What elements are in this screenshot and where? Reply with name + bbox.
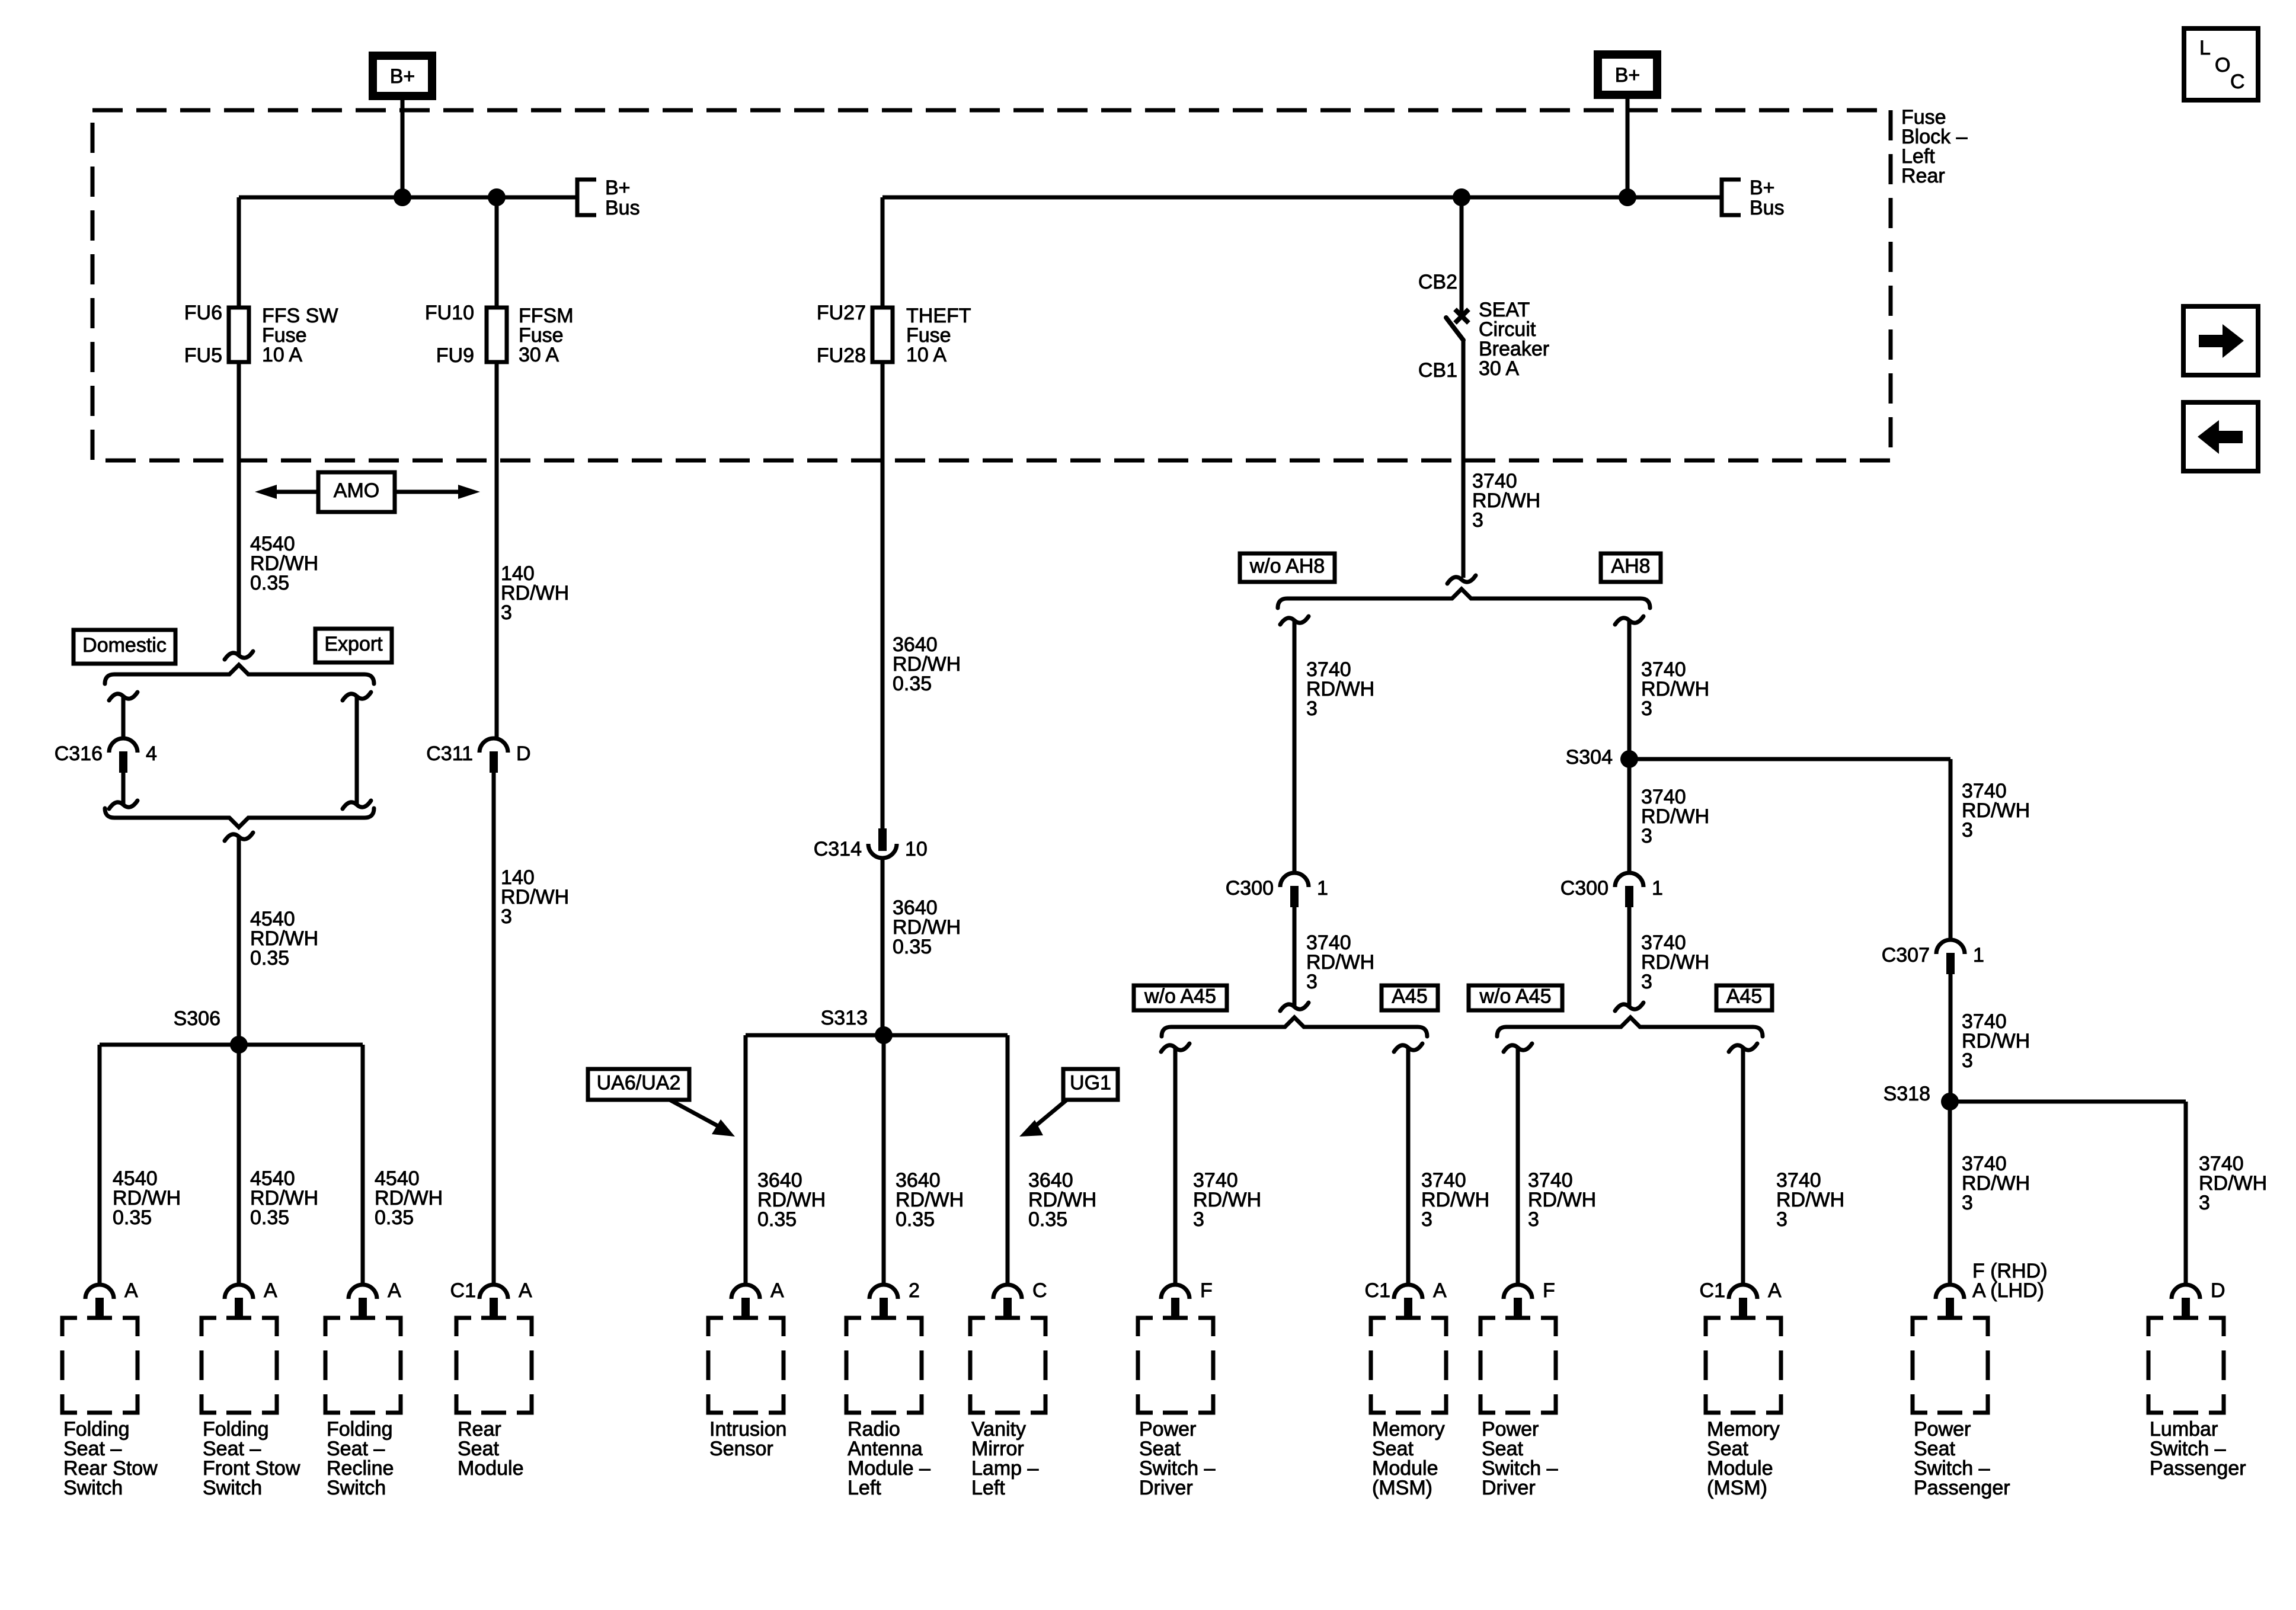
svg-text:Bus: Bus — [605, 197, 640, 219]
option brace A45 split 1 — [1162, 1017, 1427, 1036]
svg-text:3: 3 — [501, 905, 512, 928]
label C307 pin 1 — [1973, 944, 1984, 966]
wire break squiggle — [225, 651, 253, 660]
svg-text:FU5: FU5 — [184, 344, 222, 367]
label FU6 — [184, 302, 222, 324]
label C307 — [1882, 944, 1930, 966]
label C311 pin D — [516, 742, 531, 765]
svg-text:AMO: AMO — [334, 479, 379, 502]
option brace A45 split 2 — [1497, 1017, 1763, 1036]
component Intrusion Sensor (pin A) — [708, 1279, 786, 1460]
label SEAT Circuit Breaker 30 A — [1479, 299, 1549, 380]
connector C316 — [109, 738, 137, 773]
svg-text:S313: S313 — [821, 1007, 868, 1029]
wire below C300 left — [1280, 907, 1309, 1011]
label wire 4540 RD/WH 0.35 (leg1) — [113, 1167, 181, 1229]
wire AH8 branch — [1615, 616, 1643, 873]
connector C300 (right) — [1615, 873, 1643, 907]
svg-text:1: 1 — [1652, 877, 1663, 900]
svg-text:0.35: 0.35 — [375, 1206, 414, 1229]
option w/o AH8 box — [1240, 553, 1335, 582]
node junction B+2/bus — [1619, 188, 1636, 206]
splice S318 — [1941, 1093, 2186, 1110]
svg-text:FU27: FU27 — [817, 302, 866, 324]
component Power Seat Switch - Driver 1 (pin F) — [1138, 1279, 1216, 1499]
label FU10 — [425, 302, 474, 324]
option AH8 box — [1601, 553, 1661, 582]
svg-text:Driver: Driver — [1139, 1477, 1193, 1499]
label wire 140 RD/WH 3 (upper) — [501, 562, 569, 624]
svg-text:(MSM): (MSM) — [1707, 1477, 1767, 1499]
wire S304 to C307 — [1949, 759, 1953, 940]
svg-text:3: 3 — [1193, 1208, 1204, 1231]
wire S318 right leg — [2184, 1102, 2188, 1286]
wire S306 left leg — [98, 1045, 102, 1286]
label C300 right pin 1 — [1652, 877, 1663, 900]
label wire 4540 RD/WH 0.35 (feed) — [250, 533, 318, 594]
svg-text:10 A: 10 A — [906, 344, 946, 366]
svg-text:3: 3 — [1776, 1208, 1787, 1231]
label wire 3740 RD/WH 3 (PSSD2) — [1528, 1169, 1596, 1231]
option brace Domestic/Export split — [105, 665, 374, 684]
svg-text:Switch: Switch — [327, 1477, 386, 1499]
option brace merge — [105, 808, 374, 827]
component Radio Antenna Module - Left (pin 2) — [846, 1279, 930, 1499]
svg-text:C307: C307 — [1882, 944, 1930, 966]
wire FU28 down — [881, 362, 885, 828]
wire FU27 feed — [881, 197, 885, 308]
svg-text:w/o A45: w/o A45 — [1479, 985, 1552, 1008]
component Folding Seat - Recline Switch (pin A) — [325, 1279, 401, 1499]
label wire 3640 RD/WH 0.35 (leg3) — [1028, 1169, 1096, 1231]
label wire 3740 RD/WH 3 (CB out) — [1472, 470, 1540, 532]
AMO arrow left — [255, 485, 318, 499]
svg-text:A45: A45 — [1726, 985, 1763, 1008]
label wire 3740 RD/WH 3 (below C307) — [1962, 1010, 2030, 1072]
wire FU5 to brace — [237, 362, 241, 654]
wire A45 branch 2 — [1729, 1044, 1757, 1286]
svg-text:D: D — [2211, 1279, 2225, 1302]
label wire 3740 RD/WH 3 (passenger) — [1962, 1153, 2030, 1214]
svg-text:AH8: AH8 — [1611, 555, 1650, 578]
fuse FU27/FU28 THEFT — [872, 308, 893, 362]
component Folding Seat - Rear Stow Switch (pin A) — [62, 1279, 158, 1499]
wire below C300 right — [1615, 907, 1643, 1011]
callout UA6/UA2 — [588, 1069, 735, 1137]
svg-text:Left: Left — [971, 1477, 1005, 1499]
svg-text:0.35: 0.35 — [893, 673, 932, 695]
label C300 left — [1226, 877, 1274, 900]
svg-text:0.35: 0.35 — [896, 1208, 935, 1231]
component Power Seat Switch - Driver 2 (pin F) — [1480, 1279, 1558, 1499]
svg-text:10: 10 — [905, 838, 928, 860]
svg-text:0.35: 0.35 — [250, 1206, 289, 1229]
svg-text:B+: B+ — [390, 65, 415, 88]
svg-text:A45: A45 — [1392, 985, 1428, 1008]
wire C307 to S318 — [1949, 974, 1953, 1102]
label wire 3740 RD/WH 3 (below S304) — [1641, 786, 1709, 847]
svg-text:w/o AH8: w/o AH8 — [1249, 555, 1325, 578]
wire FU10 feed — [495, 197, 499, 308]
svg-text:L: L — [2199, 37, 2211, 59]
component Memory Seat Module MSM 1 (pin C1 A) — [1365, 1279, 1447, 1499]
svg-text:C311: C311 — [426, 742, 473, 765]
symbol arrow right — [2183, 306, 2258, 375]
svg-text:O: O — [2215, 54, 2230, 76]
power node B+ (right) — [1594, 50, 1661, 197]
wire bus 1 — [239, 196, 577, 200]
label C314 — [814, 838, 862, 860]
wire S313 left leg — [744, 1035, 748, 1286]
label wire 3740 RD/WH 3 (right drop) — [1962, 780, 2030, 841]
power node B+ (left) — [369, 52, 436, 197]
label wire 3740 RD/WH 3 (MSM1) — [1421, 1169, 1489, 1231]
callout UG1 — [1019, 1069, 1118, 1137]
circuit breaker CB2/CB1 SEAT — [1446, 309, 1469, 578]
splice S304 — [1620, 750, 1950, 768]
connector C307 — [1936, 940, 1965, 974]
wire FU9 down — [495, 362, 499, 738]
wire C311 to module — [492, 772, 496, 1286]
svg-text:30 A: 30 A — [519, 344, 559, 366]
svg-text:FU28: FU28 — [817, 344, 866, 367]
label FU9 — [436, 344, 474, 367]
svg-text:0.35: 0.35 — [250, 947, 289, 969]
svg-text:0.35: 0.35 — [757, 1208, 797, 1231]
wire C314 to S313 — [881, 857, 885, 1035]
wire w/o A45 branch 1 — [1161, 1044, 1189, 1286]
label wire 140 RD/WH 3 (lower) — [501, 866, 569, 928]
label C300 left pin 1 — [1317, 877, 1328, 900]
label wire 3640 RD/WH 0.35 (leg2) — [896, 1169, 964, 1231]
fuse block dashed border — [92, 110, 1891, 460]
option w/o A45 box 1 — [1134, 985, 1227, 1011]
label wire 3640 RD/WH 0.35 (leg1) — [757, 1169, 826, 1231]
label C311 — [426, 742, 473, 765]
option Domestic box — [73, 630, 175, 664]
svg-text:0.35: 0.35 — [250, 572, 289, 594]
svg-text:3: 3 — [1962, 1192, 1973, 1214]
label wire 4540 RD/WH 0.35 (leg3) — [375, 1167, 443, 1229]
label wire 4540 RD/WH 0.35 (mid) — [250, 908, 318, 969]
splice S306 — [100, 1036, 363, 1054]
node junction B+1/bus — [394, 188, 411, 206]
label FU27 — [817, 302, 866, 324]
AMO arrow right — [395, 485, 480, 499]
connector C314 — [868, 828, 897, 858]
svg-text:CB1: CB1 — [1418, 359, 1457, 382]
wire break squiggle — [225, 833, 253, 841]
svg-text:3: 3 — [2199, 1192, 2210, 1214]
component Folding Seat - Front Stow Switch (pin A) — [202, 1279, 300, 1499]
svg-text:3: 3 — [1472, 509, 1483, 532]
svg-text:1: 1 — [1317, 877, 1328, 900]
wire w/o AH8 branch — [1280, 616, 1309, 873]
svg-text:A: A — [770, 1279, 784, 1302]
component Lumbar Switch - Passenger (pin D) — [2148, 1279, 2246, 1480]
wire FU6 feed — [237, 197, 241, 308]
svg-text:3: 3 — [1528, 1208, 1539, 1231]
svg-text:F: F — [1200, 1279, 1213, 1302]
svg-text:C: C — [2230, 71, 2245, 93]
B+ Bus terminal (left) — [577, 177, 640, 219]
svg-text:10 A: 10 A — [262, 344, 302, 366]
wire A45 branch 1 — [1394, 1044, 1422, 1286]
wire to S306 — [237, 837, 241, 1045]
svg-text:CB2: CB2 — [1418, 271, 1457, 293]
svg-text:3: 3 — [1306, 697, 1318, 720]
option A45 box 1 — [1382, 985, 1438, 1011]
B+ Bus terminal (right) — [1722, 177, 1785, 219]
svg-text:Passenger: Passenger — [2150, 1457, 2246, 1480]
option AMO box — [318, 472, 395, 512]
svg-text:A: A — [1768, 1279, 1782, 1302]
label FU5 — [184, 344, 222, 367]
fuse FU10/FU9 FFSM — [487, 308, 507, 362]
svg-text:3: 3 — [501, 601, 512, 624]
component Power Seat Switch - Passenger (pin F RHD / A LHD) — [1913, 1260, 2048, 1499]
label C316 — [55, 742, 103, 765]
svg-text:S304: S304 — [1566, 746, 1613, 769]
label wire 3640 RD/WH 0.35 (upper) — [893, 633, 961, 695]
svg-text:S318: S318 — [1884, 1083, 1930, 1105]
svg-text:3: 3 — [1641, 825, 1652, 847]
svg-text:A: A — [388, 1279, 401, 1302]
svg-text:3: 3 — [1641, 697, 1652, 720]
svg-text:C314: C314 — [814, 838, 862, 860]
svg-text:C1: C1 — [450, 1279, 476, 1302]
connector C311 — [479, 738, 508, 773]
svg-text:B+: B+ — [1615, 64, 1641, 87]
svg-text:Domestic: Domestic — [82, 634, 167, 657]
label S304 — [1566, 746, 1613, 769]
svg-text:D: D — [516, 742, 531, 765]
label wire 3740 RD/WH 3 (C300L out) — [1306, 932, 1374, 993]
label FU28 — [817, 344, 866, 367]
svg-text:C: C — [1032, 1279, 1047, 1302]
label wire 3740 RD/WH 3 (w/o AH8) — [1306, 658, 1374, 720]
wire below C316 — [109, 772, 137, 809]
svg-text:0.35: 0.35 — [113, 1206, 152, 1229]
node junction FU10 tap — [488, 188, 506, 206]
label C314 pin 10 — [905, 838, 928, 860]
label S306 — [174, 1007, 220, 1030]
wire break squiggle — [1447, 575, 1476, 584]
component Rear Seat Module (pin C1 A) — [450, 1279, 532, 1480]
svg-text:Export: Export — [324, 633, 383, 655]
wire S313 right leg — [1006, 1035, 1010, 1286]
wire S313 mid leg — [882, 1035, 886, 1286]
label C316 pin 4 — [146, 742, 157, 765]
component Vanity Mirror Lamp - Left (pin C) — [970, 1279, 1047, 1499]
wire w/o A45 branch 2 — [1504, 1044, 1532, 1286]
label wire 3740 RD/WH 3 (PSSD1) — [1193, 1169, 1261, 1231]
svg-text:Switch: Switch — [203, 1477, 262, 1499]
label FFSM Fuse 30 A — [519, 305, 574, 366]
label S318 — [1884, 1083, 1930, 1105]
svg-text:(MSM): (MSM) — [1372, 1477, 1432, 1499]
label wire 3740 RD/WH 3 (MSM2) — [1776, 1169, 1844, 1231]
label S313 — [821, 1007, 868, 1029]
svg-text:C1: C1 — [1365, 1279, 1390, 1302]
label wire 3740 RD/WH 3 (AH8) — [1641, 658, 1709, 720]
svg-text:3: 3 — [1962, 1049, 1973, 1072]
fuse block label — [1901, 106, 1968, 187]
svg-text:A (LHD): A (LHD) — [1972, 1279, 2044, 1302]
fuse FU6/FU5 FFS SW — [229, 308, 249, 362]
svg-text:UA6/UA2: UA6/UA2 — [597, 1072, 681, 1094]
svg-text:Module: Module — [458, 1457, 524, 1480]
svg-text:A: A — [1433, 1279, 1447, 1302]
svg-text:0.35: 0.35 — [893, 936, 932, 958]
svg-text:C300: C300 — [1560, 877, 1609, 900]
svg-text:30 A: 30 A — [1479, 357, 1519, 380]
option Export box — [315, 629, 392, 662]
wire S306 right leg — [361, 1045, 365, 1286]
svg-text:0.35: 0.35 — [1028, 1208, 1067, 1231]
symbol arrow left — [2183, 402, 2258, 471]
option brace AH8 split — [1278, 589, 1650, 608]
splice S313 — [746, 1026, 1008, 1044]
wire Export branch — [343, 692, 371, 809]
label wire 3640 RD/WH 0.35 (mid) — [893, 897, 961, 958]
wire S318 down — [1948, 1102, 1952, 1286]
svg-text:Bus: Bus — [1750, 197, 1785, 219]
svg-text:3: 3 — [1962, 819, 1973, 841]
svg-text:Sensor: Sensor — [709, 1438, 773, 1460]
svg-text:C1: C1 — [1700, 1279, 1725, 1302]
svg-text:4: 4 — [146, 742, 157, 765]
option A45 box 2 — [1716, 985, 1772, 1011]
option w/o A45 box 2 — [1469, 985, 1562, 1011]
label CB2 — [1418, 271, 1457, 293]
svg-text:Left: Left — [848, 1477, 881, 1499]
svg-text:A: A — [264, 1279, 277, 1302]
svg-text:C316: C316 — [55, 742, 103, 765]
svg-text:Driver: Driver — [1482, 1477, 1536, 1499]
svg-text:3: 3 — [1641, 971, 1652, 993]
svg-text:1: 1 — [1973, 944, 1984, 966]
symbol LOC — [2184, 28, 2258, 100]
wire CB feed — [1460, 197, 1464, 315]
connector C300 (left) — [1280, 873, 1309, 907]
label wire 4540 RD/WH 0.35 (leg2) — [250, 1167, 318, 1229]
label wire 3740 RD/WH 3 (lumbar) — [2199, 1153, 2267, 1214]
svg-text:C300: C300 — [1226, 877, 1274, 900]
svg-text:B+: B+ — [605, 177, 631, 199]
node junction CB tap — [1453, 188, 1470, 206]
wire Domestic branch — [109, 692, 137, 738]
svg-text:Switch: Switch — [63, 1477, 123, 1499]
svg-text:FU6: FU6 — [184, 302, 222, 324]
wire bus 2 — [882, 196, 1722, 200]
label THEFT Fuse 10 A — [906, 305, 971, 366]
label wire 3740 RD/WH 3 (C300R out) — [1641, 932, 1709, 993]
svg-text:UG1: UG1 — [1070, 1072, 1111, 1094]
svg-text:Rear: Rear — [1901, 165, 1945, 187]
label CB1 — [1418, 359, 1457, 382]
svg-text:F: F — [1543, 1279, 1555, 1302]
svg-text:S306: S306 — [174, 1007, 220, 1030]
svg-text:B+: B+ — [1750, 177, 1775, 199]
svg-text:FU10: FU10 — [425, 302, 474, 324]
label FFS SW Fuse 10 A — [262, 305, 338, 366]
svg-text:A: A — [519, 1279, 532, 1302]
svg-text:A: A — [124, 1279, 138, 1302]
svg-text:3: 3 — [1306, 971, 1318, 993]
svg-text:2: 2 — [909, 1279, 920, 1302]
svg-text:3: 3 — [1421, 1208, 1432, 1231]
svg-text:Passenger: Passenger — [1914, 1477, 2010, 1499]
svg-text:w/o A45: w/o A45 — [1144, 985, 1216, 1008]
svg-text:FU9: FU9 — [436, 344, 474, 367]
component Memory Seat Module MSM 2 (pin C1 A) — [1700, 1279, 1782, 1499]
label C300 right — [1560, 877, 1609, 900]
wire S306 mid leg — [237, 1045, 241, 1286]
